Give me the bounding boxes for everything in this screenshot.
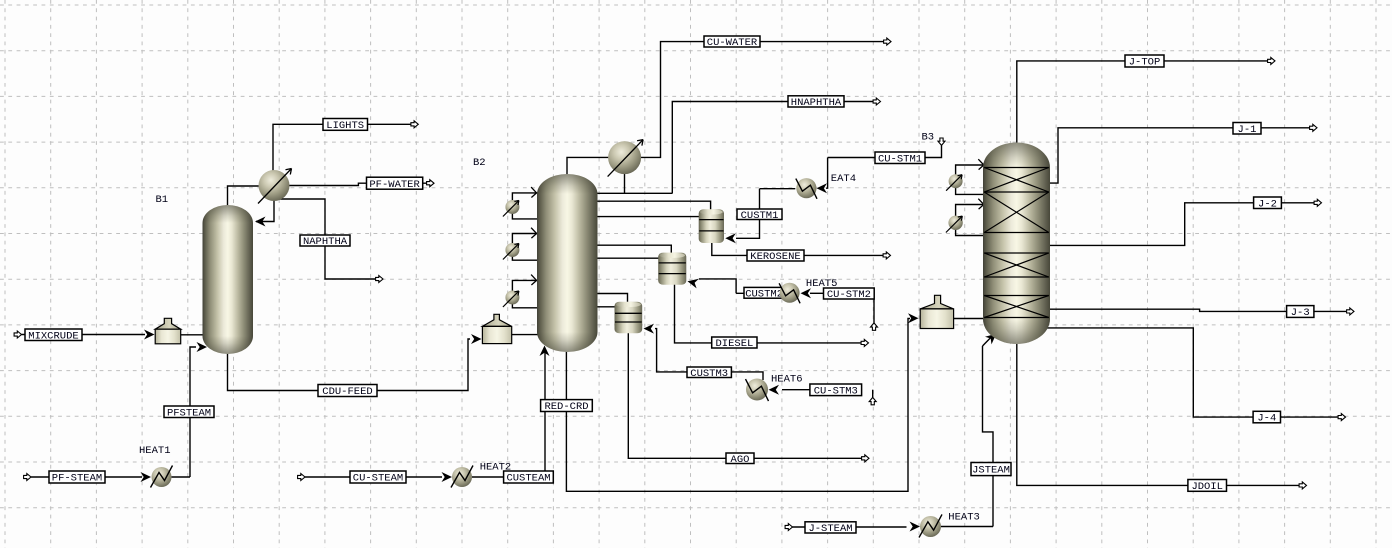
svg-text:CU-WATER: CU-WATER [707, 37, 758, 49]
svg-text:CUSTM1: CUSTM1 [741, 210, 779, 222]
svg-text:NAPHTHA: NAPHTHA [303, 236, 348, 248]
svg-text:DIESEL: DIESEL [715, 338, 753, 350]
svg-text:HEAT1: HEAT1 [139, 445, 171, 457]
svg-text:HEAT3: HEAT3 [948, 512, 980, 524]
svg-text:HEAT6: HEAT6 [771, 374, 803, 386]
svg-text:HNAPHTHA: HNAPHTHA [791, 97, 842, 109]
svg-text:LIGHTS: LIGHTS [326, 120, 364, 132]
svg-text:B2: B2 [473, 157, 486, 169]
svg-text:CU-STEAM: CU-STEAM [353, 473, 403, 485]
svg-text:CU-STM1: CU-STM1 [878, 153, 922, 165]
svg-text:CUSTEAM: CUSTEAM [506, 473, 550, 485]
svg-text:PF-STEAM: PF-STEAM [52, 473, 102, 485]
svg-text:CUSTM2: CUSTM2 [745, 288, 783, 300]
svg-text:HEAT5: HEAT5 [806, 278, 838, 290]
svg-text:J-TOP: J-TOP [1129, 57, 1161, 69]
svg-text:CDU-FEED: CDU-FEED [322, 386, 372, 398]
svg-text:J-STEAM: J-STEAM [808, 523, 852, 535]
svg-text:MIXCRUDE: MIXCRUDE [28, 330, 78, 342]
svg-text:PF-WATER: PF-WATER [369, 179, 420, 191]
svg-text:KEROSENE: KEROSENE [750, 251, 800, 263]
svg-text:B3: B3 [922, 132, 935, 144]
svg-text:J-1: J-1 [1238, 124, 1257, 136]
svg-text:AGO: AGO [731, 454, 750, 466]
svg-text:J-4: J-4 [1257, 413, 1276, 425]
svg-text:J-3: J-3 [1291, 307, 1310, 319]
svg-text:PFSTEAM: PFSTEAM [167, 407, 211, 419]
svg-text:JSTEAM: JSTEAM [972, 465, 1010, 477]
svg-text:B1: B1 [156, 194, 169, 206]
svg-text:CU-STM2: CU-STM2 [827, 289, 871, 301]
svg-text:HEAT2: HEAT2 [480, 462, 512, 474]
svg-text:CUSTM3: CUSTM3 [690, 368, 728, 380]
svg-text:JDOIL: JDOIL [1191, 481, 1223, 493]
svg-text:J-2: J-2 [1258, 198, 1277, 210]
svg-text:CU-STM3: CU-STM3 [814, 385, 858, 397]
svg-text:EAT4: EAT4 [831, 173, 856, 185]
svg-text:RED-CRD: RED-CRD [544, 401, 588, 413]
